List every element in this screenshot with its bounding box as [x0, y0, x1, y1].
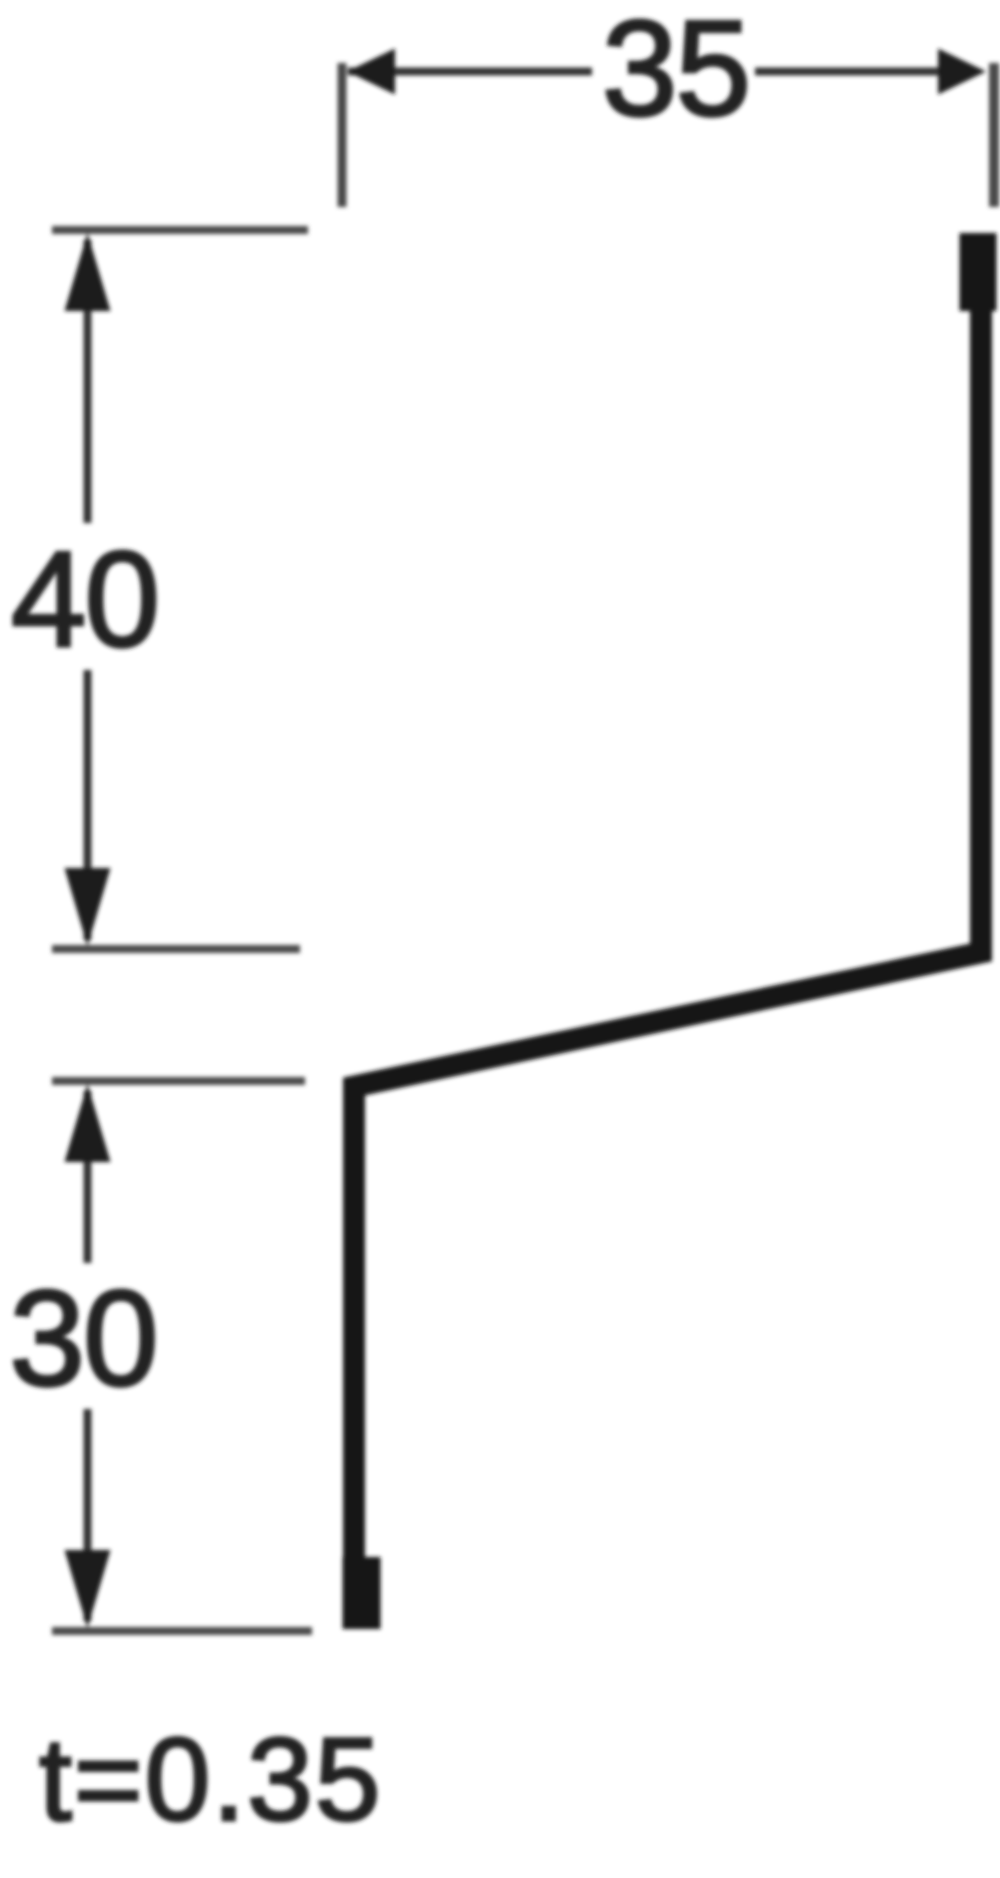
svg-text:30: 30 — [9, 1262, 156, 1414]
dim 40 arrowhead down — [65, 868, 111, 946]
dim 30 arrowhead down — [65, 1550, 111, 1628]
dim 40 top extension line — [52, 226, 308, 234]
profile cut end top — [960, 233, 997, 311]
profile cut end bottom — [343, 1557, 381, 1629]
dim 40 dimension line upper segment — [84, 240, 92, 523]
dim 35 arrowhead right — [938, 49, 986, 95]
dim 35 right extension line — [989, 63, 999, 207]
dim 30 dimension line upper segment — [84, 1091, 92, 1263]
dim 40 dimension line lower segment — [84, 670, 92, 940]
dim 30 bottom extension line — [52, 1627, 312, 1635]
svg-text:t=0.35: t=0.35 — [39, 1714, 382, 1846]
dim 30 dimension line lower segment — [84, 1409, 92, 1621]
dim 30 arrowhead up — [65, 1084, 111, 1162]
svg-text:35: 35 — [602, 0, 749, 144]
dim 35 dimension line left segment — [348, 68, 592, 76]
dim 35 dimension line right segment — [755, 68, 968, 76]
svg-text:40: 40 — [11, 523, 158, 675]
dim 40 arrowhead up — [65, 233, 111, 311]
dim 30 top extension line — [52, 1077, 305, 1085]
dim 35 left extension line — [338, 63, 347, 207]
dim 40 bottom extension line — [52, 945, 300, 953]
profile outline (Z section) — [354, 300, 981, 1622]
dim 35 arrowhead left — [347, 49, 395, 95]
